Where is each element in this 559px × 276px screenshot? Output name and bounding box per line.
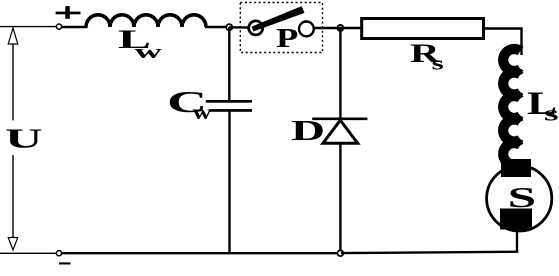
bottom rail thick: [61, 252, 341, 254]
svg-text:S: S: [508, 182, 537, 213]
bottom rail thin left segment: [0, 252, 59, 254]
wire corner down to coil: [520, 29, 522, 56]
wire capacitor bottom to bottom rail: [228, 112, 230, 254]
svg-text:w: w: [135, 42, 163, 63]
svg-text:s: s: [432, 53, 444, 74]
motor bottom brush: [500, 209, 532, 230]
switch lever: [252, 6, 305, 31]
diode branch wire down: [339, 28, 341, 119]
svg-text:D: D: [291, 115, 325, 147]
diode wire to bottom rail: [339, 142, 341, 253]
motor top brush: [501, 159, 531, 177]
svg-text:s: s: [544, 101, 559, 125]
voltage arrow U top segment: [12, 43, 14, 120]
node + terminal circle: [56, 24, 61, 29]
wire junction B to resistor: [338, 27, 362, 29]
capacitor C_w bottom plate: [210, 109, 253, 112]
resistor R_s: [362, 19, 484, 39]
diode D triangle: [323, 120, 358, 143]
motor S circle: [487, 166, 552, 231]
inductor L_w: [86, 15, 206, 27]
arrowhead up: [8, 28, 18, 44]
svg-text:P: P: [276, 22, 298, 52]
label L_s: [527, 85, 559, 126]
wire node to inductor: [61, 26, 88, 28]
label C_w: [167, 85, 212, 124]
diode cathode bar: [312, 117, 367, 120]
plus sign: [56, 6, 81, 19]
wire switch to junction B: [313, 27, 344, 29]
wire junction to switch: [229, 26, 250, 29]
wire motor to bottom rail: [516, 228, 518, 253]
switch left contact: [249, 21, 263, 35]
minus sign: [59, 262, 71, 264]
wire resistor to corner: [485, 27, 523, 29]
switch right contact: [299, 22, 314, 37]
node - terminal circle: [56, 251, 61, 256]
wire inductor to junction: [205, 26, 232, 28]
label R_s: [410, 39, 444, 74]
svg-text:U: U: [5, 123, 43, 153]
label L_w: [118, 25, 162, 62]
inductor L_s coil: [503, 49, 520, 165]
arrowhead down: [8, 238, 18, 251]
capacitor C_w top plate: [206, 100, 252, 103]
node junction A (top of Cw branch): [226, 24, 232, 30]
wire top-left thin from edge to + terminal: [0, 26, 59, 28]
node junction B (top of diode branch): [337, 25, 343, 31]
node bottom of diode branch: [338, 250, 344, 256]
voltage arrow U bottom segment: [12, 155, 14, 239]
svg-text:w: w: [193, 102, 212, 124]
bottom rail right segment: [341, 252, 518, 253]
switch dotted box: [240, 3, 322, 53]
